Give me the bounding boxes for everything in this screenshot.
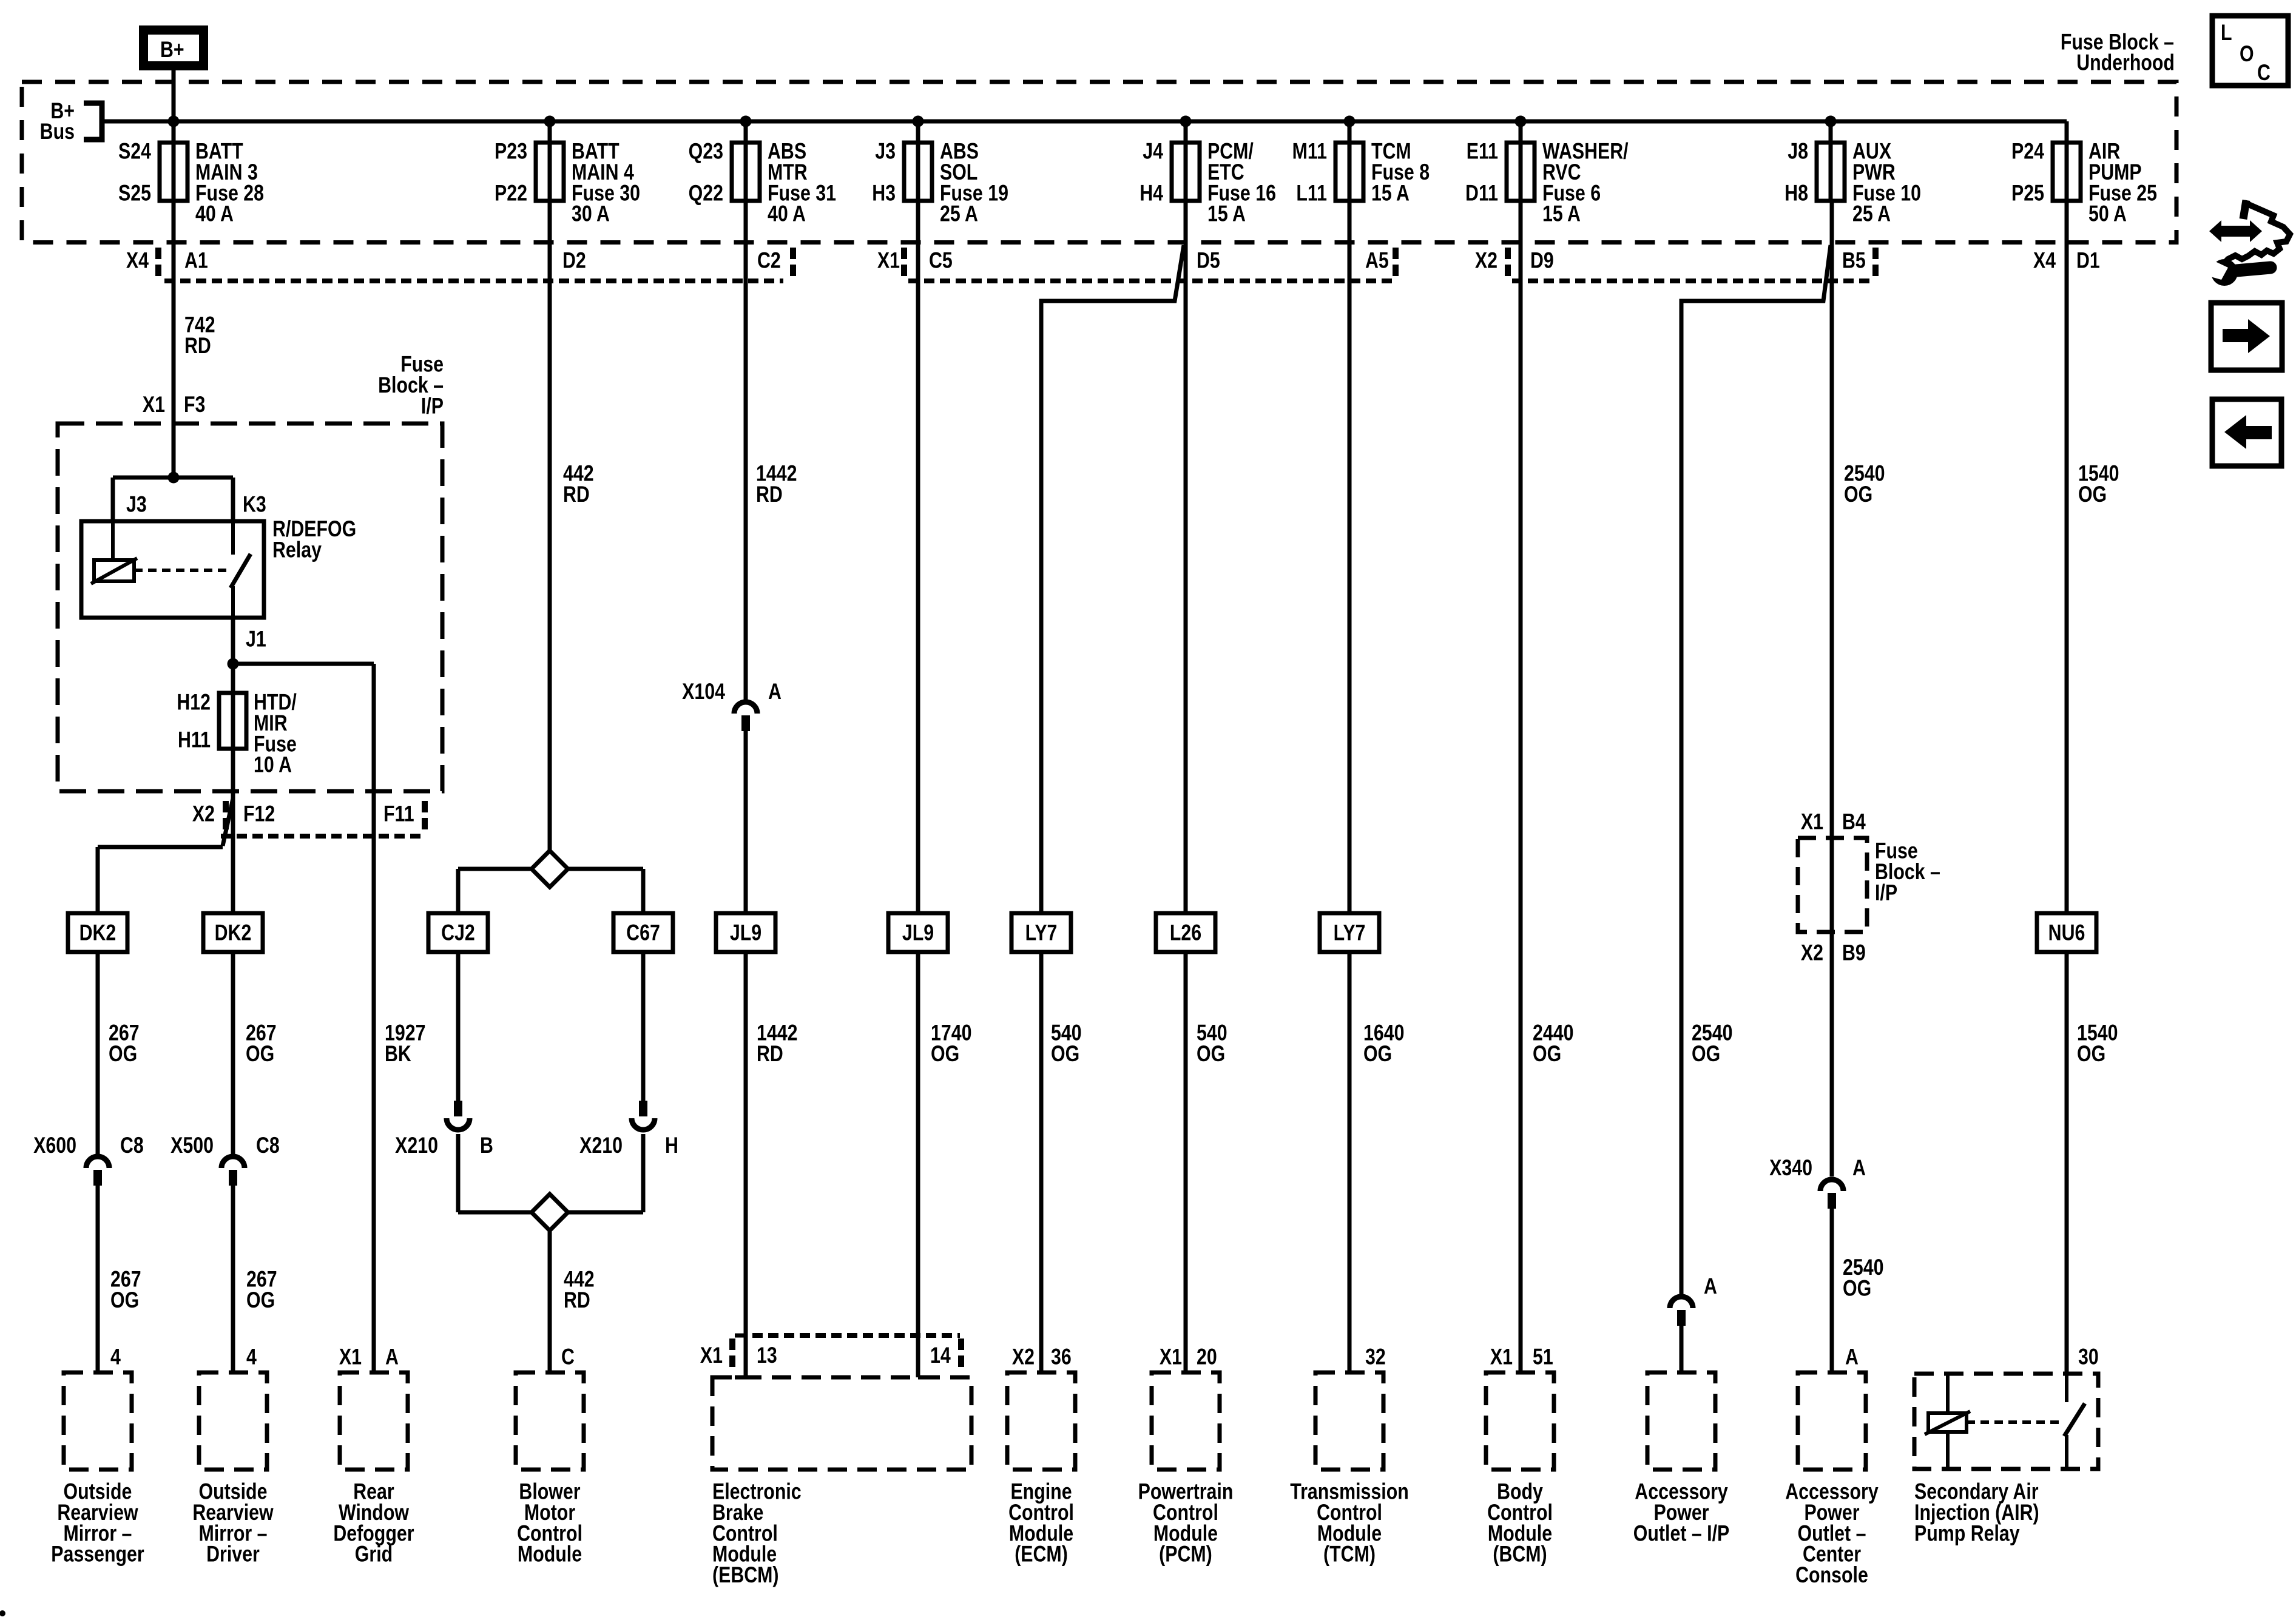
svg-text:C67: C67 — [626, 920, 660, 946]
svg-text:OG: OG — [246, 1288, 275, 1313]
svg-text:A: A — [1852, 1155, 1866, 1181]
svg-text:D9: D9 — [1530, 248, 1554, 274]
wire label 540 OG — [1051, 1021, 1082, 1067]
svg-text:RD: RD — [564, 1288, 590, 1313]
inline connector X210 pin B — [395, 1101, 493, 1158]
wire ECM branch down to LY7 — [1039, 301, 1044, 913]
bus junction at x=1954 — [1180, 116, 1192, 127]
svg-text:Q23: Q23 — [689, 139, 723, 164]
wire label 540 OG — [1197, 1021, 1227, 1067]
labels X2 F12 F11 under I/P block — [192, 802, 414, 827]
svg-text:B: B — [480, 1133, 493, 1158]
relay switch — [231, 521, 235, 555]
inline connector X500 pin C8 — [171, 1133, 280, 1186]
AIR pump relay coil — [1946, 1374, 1950, 1413]
wire label 2440 OG — [1533, 1021, 1573, 1067]
svg-text:P23: P23 — [495, 139, 527, 164]
inline harness connector DK2 — [203, 913, 263, 952]
wire label 1640 OG — [1363, 1021, 1404, 1067]
svg-text:H4: H4 — [1140, 180, 1163, 206]
inline harness connector L26 — [1156, 913, 1215, 952]
svg-text:OG: OG — [109, 1041, 137, 1067]
service icon double arrow with wrench — [2202, 200, 2290, 286]
fuse BATT MAIN 3 (Fuse 28) with terminals S24/S25 — [118, 139, 264, 227]
pin labels at component connectors — [110, 1343, 2099, 1369]
svg-text:L: L — [2221, 20, 2232, 46]
connector bracket dotted lines — [164, 279, 1872, 283]
wire B+ terminal to bus — [172, 66, 176, 201]
label 742 RD — [184, 312, 215, 359]
svg-text:X1: X1 — [1801, 809, 1823, 835]
branch D5 to ECM column — [1041, 245, 1184, 303]
svg-text:I/P: I/P — [421, 393, 444, 419]
component box Secondary Air Injection (AIR) Pump Relay — [1914, 1374, 2098, 1469]
svg-text:LY7: LY7 — [1334, 920, 1366, 946]
svg-text:Passenger: Passenger — [51, 1542, 144, 1567]
svg-text:25 A: 25 A — [940, 201, 978, 227]
svg-text:P25: P25 — [2011, 180, 2044, 206]
svg-text:Console: Console — [1795, 1562, 1868, 1588]
svg-text:X340: X340 — [1769, 1155, 1812, 1181]
svg-text:C2: C2 — [757, 248, 781, 274]
component box Outside Rearview Mirror - Passenger — [64, 1372, 132, 1470]
svg-text:P24: P24 — [2011, 139, 2044, 164]
svg-text:OG: OG — [1363, 1041, 1392, 1067]
svg-text:50 A: 50 A — [2088, 201, 2127, 227]
wire 742 RD (A1 to I/P fuse block) — [172, 201, 176, 478]
wire TCM A5 to LY7 — [1348, 201, 1352, 913]
label R/DEFOG Relay — [272, 516, 356, 562]
inline harness connector JL9 — [888, 913, 948, 952]
svg-text:13: 13 — [757, 1343, 777, 1368]
wire PCM D5 down — [1184, 201, 1188, 913]
bus junction at x=1513 — [913, 116, 924, 127]
svg-text:C: C — [561, 1345, 575, 1370]
svg-text:15 A: 15 A — [1371, 180, 1410, 206]
fuse PCM/ ETC (Fuse 16) with terminals J4/H4 — [1140, 139, 1276, 227]
wire label 1442 RD — [757, 1021, 797, 1067]
bus junction at x=2224 — [1344, 116, 1356, 127]
wire C67 to X210 H — [641, 952, 646, 1103]
label Fuse Block - Underhood — [2061, 30, 2175, 76]
wire X340 to console outlet — [1830, 1209, 1834, 1372]
svg-text:OG: OG — [1843, 1276, 1871, 1301]
svg-text:X210: X210 — [395, 1133, 438, 1158]
svg-text:A: A — [1845, 1345, 1859, 1370]
svg-text:14: 14 — [930, 1343, 951, 1368]
wire bus to fuse — [744, 121, 748, 201]
svg-text:F3: F3 — [184, 392, 205, 417]
caption Transmission Control Module (TCM) — [1290, 1479, 1409, 1567]
bus junction at x=286 — [168, 116, 180, 127]
svg-text:Grid: Grid — [355, 1542, 393, 1567]
wire label 1740 OG — [931, 1021, 971, 1067]
B+ battery feed terminal — [144, 30, 204, 66]
svg-text:J8: J8 — [1788, 139, 1808, 164]
svg-text:4: 4 — [246, 1345, 257, 1370]
wire bus to fuse — [1348, 121, 1352, 201]
wire 442 RD splice diamond bottom — [532, 1194, 568, 1230]
svg-text:C: C — [2257, 60, 2271, 86]
svg-text:Pump Relay: Pump Relay — [1914, 1521, 2020, 1546]
wire JL9 to EBCM pin 13 — [744, 952, 748, 1377]
caption Electronic Brake Control Module (EBCM) — [712, 1479, 802, 1588]
svg-text:X2: X2 — [1801, 940, 1823, 966]
caption Engine Control Module (ECM) — [1008, 1479, 1074, 1567]
component box Blower Motor Control Module — [516, 1372, 584, 1470]
svg-text:Bus: Bus — [40, 119, 75, 144]
wire 442 RD (D2 to splice) — [548, 201, 552, 852]
svg-text:Q22: Q22 — [689, 180, 723, 206]
caption Outside Rearview Mirror - Passenger — [51, 1479, 144, 1567]
caption Accessory Power Outlet - I/P — [1633, 1479, 1729, 1546]
fuse AUX PWR (Fuse 10) with terminals J8/H8 — [1784, 139, 1921, 227]
wire WASHER/RVC D9 to BCM — [1519, 201, 1523, 1372]
svg-text:J1: J1 — [246, 627, 266, 652]
svg-text:X1: X1 — [1490, 1345, 1513, 1370]
svg-text:X4: X4 — [126, 248, 149, 274]
branch to passenger mirror column — [223, 798, 233, 846]
page footer period — [0, 1610, 5, 1616]
svg-text:H3: H3 — [872, 180, 896, 206]
wire splice to blower module — [548, 1230, 552, 1372]
svg-text:S24: S24 — [118, 139, 151, 164]
bus corner down to AIR PUMP fuse — [2065, 121, 2069, 201]
wire label 267 OG — [109, 1021, 140, 1067]
svg-text:30 A: 30 A — [572, 201, 610, 227]
label 1442 RD — [756, 461, 797, 507]
label B+ Bus — [40, 98, 75, 144]
svg-text:M11: M11 — [1292, 139, 1327, 164]
fuse WASHER/ RVC (Fuse 6) with terminals E11/D11 — [1465, 139, 1629, 227]
component box Engine Control Module (ECM) — [1007, 1372, 1075, 1470]
svg-text:H8: H8 — [1784, 180, 1808, 206]
wire label 1540 OG — [2077, 1021, 2118, 1067]
svg-text:X2: X2 — [192, 802, 215, 827]
svg-text:OG: OG — [2077, 1041, 2105, 1067]
svg-text:S25: S25 — [118, 180, 151, 206]
splice left branch to CJ2 — [458, 867, 532, 871]
caption Powertrain Control Module (PCM) — [1138, 1479, 1234, 1567]
component box Body Control Module (BCM) — [1486, 1372, 1554, 1470]
svg-text:RD: RD — [563, 482, 590, 507]
I/P connector separator marks — [226, 801, 425, 832]
I/P connector bracket dotted line — [221, 834, 420, 839]
relay coil — [94, 560, 134, 581]
wire label 1540 OG (air pump upper) — [2078, 461, 2119, 507]
caption Rear Window Defogger Grid — [333, 1479, 414, 1567]
wire L26 to PCM — [1184, 952, 1188, 1374]
svg-text:40 A: 40 A — [195, 201, 234, 227]
wire J1 to rear defogger column — [233, 662, 374, 666]
svg-text:A: A — [1704, 1274, 1717, 1299]
svg-text:OG: OG — [1533, 1041, 1561, 1067]
wire connector A to I/P outlet — [1680, 1326, 1684, 1372]
component box Transmission Control Module (TCM) — [1315, 1372, 1383, 1470]
svg-text:C8: C8 — [256, 1133, 280, 1158]
wire label 2540 OG — [1692, 1021, 1732, 1067]
wire CJ2 to X210 B — [456, 952, 461, 1103]
B+ bus bracket — [84, 103, 102, 140]
wire LY7 to ECM — [1039, 952, 1044, 1374]
svg-text:(PCM): (PCM) — [1159, 1542, 1212, 1567]
svg-text:J3: J3 — [875, 139, 896, 164]
svg-text:C8: C8 — [120, 1133, 144, 1158]
junction J1 branch — [228, 658, 239, 670]
svg-text:(EBCM): (EBCM) — [712, 1562, 779, 1588]
svg-text:J4: J4 — [1143, 139, 1163, 164]
wire I/P outlet column down — [1680, 301, 1684, 1294]
wire label 2540 OG (lower) — [1843, 1255, 1883, 1301]
svg-text:RD: RD — [756, 482, 783, 507]
labels J3 K3 — [126, 492, 266, 518]
fuse ABS MTR (Fuse 31) with terminals Q23/Q22 — [689, 139, 836, 227]
svg-text:X1: X1 — [700, 1343, 723, 1368]
inline connector X104 pin A — [682, 679, 782, 731]
svg-text:OG: OG — [1197, 1041, 1225, 1067]
svg-text:C5: C5 — [929, 248, 953, 274]
wire bus to fuse — [916, 121, 920, 201]
svg-text:Relay: Relay — [272, 538, 322, 563]
wire relay output J1 — [231, 618, 235, 750]
labels X1 F3 — [143, 392, 206, 417]
svg-text:X1: X1 — [877, 248, 900, 274]
svg-text:OG: OG — [1844, 482, 1872, 507]
wire 1442 RD (C2 to X104 A) — [744, 201, 748, 700]
page-back arrow box — [2212, 399, 2281, 466]
bus junction at x=3017 — [1825, 116, 1837, 127]
svg-text:A: A — [768, 679, 782, 704]
svg-text:D2: D2 — [562, 248, 586, 274]
relay actuator dashed link — [134, 569, 229, 572]
wire F12 down to DK2 — [231, 749, 235, 913]
component box Outside Rearview Mirror - Driver — [199, 1372, 267, 1470]
label Fuse Block - I/P — [378, 352, 444, 419]
svg-text:DK2: DK2 — [215, 920, 252, 946]
inline connector X600 pin C8 — [33, 1133, 144, 1186]
wire label 1927 BK — [385, 1021, 425, 1067]
svg-text:A: A — [385, 1345, 399, 1370]
wire label 442 RD (lower) — [564, 1267, 595, 1313]
LOC reference box — [2212, 16, 2288, 86]
svg-text:E11: E11 — [1467, 139, 1498, 164]
caption Accessory Power Outlet - Center Console — [1785, 1479, 1879, 1588]
inline harness connector LY7 — [1320, 913, 1379, 952]
svg-text:20: 20 — [1197, 1345, 1217, 1370]
EBCM pin ticks — [735, 1335, 933, 1377]
svg-text:25 A: 25 A — [1852, 201, 1891, 227]
fuse ABS SOL (Fuse 19) with terminals J3/H3 — [872, 139, 1008, 227]
svg-text:B+: B+ — [160, 37, 184, 62]
wire X210 B to splice — [456, 1134, 461, 1212]
svg-text:51: 51 — [1533, 1345, 1553, 1370]
Fuse Block - Underhood enclosure (dashed) — [22, 82, 2176, 243]
AIR pump relay actuator dashed link — [1967, 1420, 2060, 1424]
svg-text:B5: B5 — [1842, 248, 1866, 274]
svg-text:CJ2: CJ2 — [441, 920, 475, 946]
svg-text:Outlet – I/P: Outlet – I/P — [1633, 1521, 1729, 1546]
branch B5 to I/P outlet column — [1681, 245, 1831, 303]
wire label 267 OG (lower) — [110, 1267, 141, 1313]
svg-text:A1: A1 — [184, 248, 208, 274]
caption Blower Motor Control Module — [517, 1479, 582, 1567]
wire AUX PWR B5 down (center console) — [1830, 201, 1834, 1176]
svg-text:B9: B9 — [1842, 940, 1866, 966]
svg-text:X4: X4 — [2033, 248, 2056, 274]
svg-text:15 A: 15 A — [1542, 201, 1581, 227]
caption Secondary Air Injection (AIR) Pump Relay — [1914, 1479, 2039, 1546]
svg-text:H11: H11 — [178, 727, 211, 753]
svg-text:H12: H12 — [177, 690, 211, 715]
inline connector X210 pin H — [579, 1101, 678, 1158]
svg-text:NU6: NU6 — [2048, 920, 2085, 946]
svg-text:I/P: I/P — [1875, 880, 1897, 905]
wire X600 to mirror — [96, 1186, 100, 1372]
svg-text:X2: X2 — [1012, 1345, 1035, 1370]
svg-text:F11: F11 — [383, 802, 414, 827]
svg-text:DK2: DK2 — [79, 920, 116, 946]
wire ABS SOL C5 to JL9 — [916, 201, 920, 913]
inline connector X340 pin A (center console) — [1769, 1155, 1866, 1209]
wire bus to fuse — [1829, 121, 1833, 201]
EBCM connector separators — [732, 1338, 961, 1371]
wire bus to fuse — [548, 121, 552, 201]
svg-text:P22: P22 — [495, 180, 527, 206]
relay top bracket wire — [113, 476, 233, 480]
labels X2 B9 — [1801, 940, 1866, 966]
fuse TCM (Fuse 8) with terminals M11/L11 — [1292, 139, 1430, 206]
wire LY7 to TCM — [1348, 952, 1352, 1374]
svg-text:X1: X1 — [143, 392, 165, 417]
fuse BATT MAIN 4 (Fuse 30) with terminals P23/P22 — [495, 139, 640, 227]
svg-text:BK: BK — [385, 1041, 411, 1067]
fuse HTD/MIR with terminals H12/H11 — [177, 690, 297, 778]
svg-text:B4: B4 — [1842, 809, 1866, 835]
svg-text:JL9: JL9 — [730, 920, 761, 946]
component box Rear Window Defogger Grid — [340, 1372, 408, 1470]
svg-text:RD: RD — [757, 1041, 783, 1067]
svg-text:32: 32 — [1365, 1345, 1386, 1370]
relay R/DEFOG box — [81, 521, 264, 618]
wire NU6 to AIR pump relay — [2065, 952, 2069, 1374]
bus junction at x=906 — [544, 116, 556, 127]
inline harness connector CJ2 — [428, 913, 488, 952]
label 442 RD — [563, 461, 594, 507]
component box Accessory Power Outlet - I/P — [1647, 1372, 1715, 1470]
svg-text:Underhood: Underhood — [2076, 50, 2175, 76]
svg-text:36: 36 — [1051, 1345, 1072, 1370]
svg-text:X1: X1 — [339, 1345, 362, 1370]
component box Accessory Power Outlet - Center Console — [1798, 1372, 1866, 1470]
caption Body Control Module (BCM) — [1487, 1479, 1553, 1567]
inline harness connector C67 — [613, 913, 673, 952]
wire label 2540 OG (console upper) — [1844, 461, 1885, 507]
svg-text:4: 4 — [110, 1345, 121, 1370]
wire X104 A to JL9 — [744, 730, 748, 913]
svg-text:J3: J3 — [126, 492, 147, 518]
svg-text:L26: L26 — [1170, 920, 1201, 946]
bus junction at x=1229 — [740, 116, 752, 127]
svg-text:OG: OG — [2078, 482, 2107, 507]
wire X210 H to splice — [641, 1134, 646, 1212]
label Fuse Block - I/P (console) — [1875, 839, 1940, 905]
svg-text:A5: A5 — [1365, 248, 1389, 274]
svg-text:30: 30 — [2078, 1345, 2099, 1370]
EBCM connector strip dotted line — [752, 1333, 960, 1338]
B+ bus wire — [102, 120, 2067, 124]
svg-text:(ECM): (ECM) — [1015, 1542, 1068, 1567]
wire bus to fuse — [1519, 121, 1523, 201]
wire JL9 to EBCM pin 14 — [916, 952, 920, 1377]
inline harness connector LY7 — [1011, 913, 1071, 952]
component box Powertrain Control Module (PCM) — [1152, 1372, 1220, 1470]
inline harness connector DK2 — [68, 913, 127, 952]
svg-text:H: H — [665, 1133, 678, 1158]
caption Outside Rearview Mirror - Driver — [192, 1479, 274, 1567]
splice right branch to C67 — [567, 867, 643, 871]
svg-text:OG: OG — [110, 1288, 139, 1313]
svg-text:JL9: JL9 — [902, 920, 934, 946]
component box Electronic Brake Control Module (EBCM) — [712, 1377, 971, 1470]
wire DK2 passenger to X600 — [96, 952, 100, 1155]
relay feed junction — [168, 472, 180, 484]
svg-text:O: O — [2240, 41, 2254, 67]
svg-text:RD: RD — [184, 333, 211, 359]
svg-text:(TCM): (TCM) — [1323, 1542, 1376, 1567]
labels X1 B4 — [1801, 809, 1866, 835]
svg-text:X1: X1 — [1160, 1345, 1182, 1370]
svg-text:Module: Module — [518, 1542, 582, 1567]
svg-text:X500: X500 — [171, 1133, 214, 1158]
svg-text:Driver: Driver — [206, 1542, 260, 1567]
connector separator marks — [158, 248, 1876, 278]
wire 442 RD splice diamond top — [532, 851, 568, 887]
svg-text:OG: OG — [1692, 1041, 1720, 1067]
svg-text:OG: OG — [246, 1041, 274, 1067]
inline harness connector NU6 — [2037, 913, 2096, 952]
svg-text:40 A: 40 A — [768, 201, 806, 227]
wire label 267 OG (lower) — [246, 1267, 277, 1313]
svg-text:D5: D5 — [1197, 248, 1220, 274]
svg-text:LY7: LY7 — [1025, 920, 1058, 946]
svg-text:(BCM): (BCM) — [1493, 1542, 1547, 1567]
svg-text:F12: F12 — [243, 802, 275, 827]
svg-text:X104: X104 — [682, 679, 725, 704]
svg-text:OG: OG — [931, 1041, 959, 1067]
wire X500 to mirror — [231, 1186, 235, 1372]
svg-text:D11: D11 — [1465, 180, 1498, 206]
page-forward arrow box — [2211, 303, 2282, 370]
svg-text:L11: L11 — [1296, 180, 1327, 206]
wire AIR PUMP D1 to NU6 — [2065, 201, 2069, 913]
AIR pump relay switch — [2065, 1374, 2068, 1402]
Fuse Block - I/P enclosure (dashed) — [58, 424, 442, 791]
wire label 267 OG — [246, 1021, 277, 1067]
svg-text:X210: X210 — [579, 1133, 623, 1158]
connector A (I/P outlet) — [1670, 1274, 1717, 1326]
svg-text:10 A: 10 A — [254, 752, 292, 778]
connector row labels under fuse block — [126, 248, 2100, 274]
svg-text:D1: D1 — [2076, 248, 2100, 274]
svg-text:K3: K3 — [243, 492, 266, 518]
svg-text:X2: X2 — [1475, 248, 1497, 274]
inline harness connector JL9 — [716, 913, 775, 952]
svg-text:X600: X600 — [33, 1133, 76, 1158]
bus junction at x=2506 — [1515, 116, 1527, 127]
Fuse Block - I/P pass-through (dashed) — [1798, 838, 1867, 932]
fuse AIR PUMP (Fuse 25) with terminals P24/P25 — [2011, 139, 2157, 227]
wire DK2 driver to X500 — [231, 952, 235, 1155]
